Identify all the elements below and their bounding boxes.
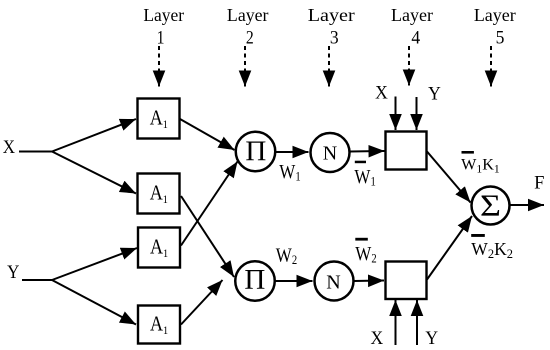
- wire Pi1 to N1: [276, 151, 309, 153]
- layer 4 dashed arrow: [408, 46, 410, 86]
- layer 1 dashed arrow: [158, 46, 160, 87]
- defuzz box top (layer 4): [386, 132, 427, 170]
- svg-text:1: 1: [157, 27, 165, 47]
- wire Y down into top box: [416, 97, 418, 130]
- wire X to A1 box2: [52, 152, 136, 194]
- wire Sigma to F output: [510, 204, 545, 206]
- svg-text:F: F: [534, 174, 544, 194]
- wire N2 to defuzz box2: [354, 280, 384, 283]
- layer 5 dashed arrow: [490, 46, 492, 87]
- svg-text:N: N: [323, 142, 337, 164]
- label Wbar2: [355, 238, 377, 266]
- svg-text:Y: Y: [425, 328, 438, 349]
- svg-text:Layer: Layer: [143, 5, 184, 25]
- svg-text:Layer: Layer: [308, 6, 356, 26]
- svg-text:X: X: [3, 136, 15, 157]
- svg-text:Π: Π: [245, 136, 266, 168]
- membership box A1 (first): [138, 99, 180, 139]
- layer 2 dashed arrow: [244, 46, 246, 87]
- layer label Layer 1: [143, 5, 184, 48]
- wire A1 box4 to Pi2: [181, 280, 223, 325]
- layer label Layer 2: [227, 5, 269, 47]
- membership box A1 (third): [138, 228, 180, 268]
- svg-text:N: N: [326, 271, 340, 293]
- svg-text:5: 5: [496, 27, 505, 48]
- wire Y up into bottom box: [416, 300, 418, 345]
- svg-text:Layer: Layer: [391, 5, 433, 25]
- wire X to A1 box1: [52, 119, 136, 152]
- layer label Layer 4: [391, 5, 433, 47]
- svg-text:Σ: Σ: [480, 189, 501, 223]
- label Wbar2K2: [471, 234, 513, 261]
- svg-text:X: X: [375, 82, 388, 103]
- wire Pi2 to N2: [276, 280, 313, 282]
- layer label Layer 5: [474, 5, 516, 47]
- svg-text:2: 2: [246, 27, 254, 47]
- layer label Layer 3: [308, 6, 356, 47]
- wire Y to A1 box4: [52, 280, 136, 325]
- svg-text:4: 4: [411, 27, 420, 48]
- wire top box to Sigma: [427, 152, 471, 203]
- svg-text:Y: Y: [428, 83, 441, 104]
- svg-text:Layer: Layer: [474, 5, 516, 25]
- defuzz box bottom (layer 4): [386, 262, 427, 300]
- label Wbar1: [354, 161, 376, 189]
- svg-text:Layer: Layer: [227, 5, 269, 25]
- membership box A1 (second): [138, 174, 180, 214]
- wire X horizontal: [19, 151, 52, 153]
- membership box A1 (fourth): [138, 306, 180, 344]
- wire N1 to defuzz box1: [350, 150, 385, 153]
- product node Pi1: [236, 132, 276, 172]
- wire Y to A1 box3: [52, 248, 137, 280]
- norm node N2: [315, 262, 354, 301]
- svg-text:Y: Y: [7, 261, 19, 282]
- wire Y horizontal: [22, 279, 52, 281]
- wire X up into bottom box: [395, 300, 397, 345]
- wire A1 box1 to Pi1: [180, 119, 235, 150]
- svg-text:3: 3: [330, 27, 339, 48]
- layer 3 dashed arrow: [328, 46, 330, 87]
- svg-text:X: X: [370, 328, 383, 349]
- sum node Sigma: [472, 187, 510, 225]
- wire bottom box to Sigma: [427, 216, 472, 280]
- product node Pi2: [235, 261, 275, 301]
- wire A1 box2 to Pi2 (crossing): [181, 196, 234, 277]
- wire X down into top box: [395, 97, 397, 131]
- norm node N1: [311, 133, 350, 172]
- svg-text:Π: Π: [244, 264, 265, 296]
- label Wbar1K1: [461, 151, 500, 175]
- wire A1 box3 to Pi1 (crossing): [181, 162, 238, 246]
